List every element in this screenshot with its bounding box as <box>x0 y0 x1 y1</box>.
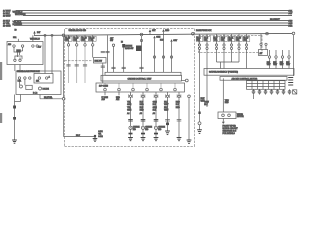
column F5 clutch switch <box>110 38 116 72</box>
svg-text:WHT/GRN: WHT/GRN <box>15 14 26 16</box>
svg-text:A12: A12 <box>116 98 119 101</box>
relay contact internals <box>14 47 23 59</box>
output column x130.5 <box>127 97 140 137</box>
svg-text:SW: SW <box>110 40 113 42</box>
node circle C2 <box>62 98 65 101</box>
fuse F12 <box>243 34 250 69</box>
wire right edge drop <box>293 35 295 76</box>
off-page arrow A1b <box>162 29 170 34</box>
bus wire 6 <box>3 24 293 28</box>
svg-text:DIODE: DIODE <box>43 89 50 91</box>
component box U3 <box>94 58 107 64</box>
bus wire 4 <box>3 20 293 23</box>
wire from J1 to C2 <box>39 95 41 99</box>
wire join y64.3 <box>217 61 240 63</box>
ground G402 <box>93 139 98 142</box>
node circle C5 <box>188 95 191 98</box>
svg-text:GAUGE ASSEMBLY (PRINTED): GAUGE ASSEMBLY (PRINTED) <box>209 70 238 73</box>
svg-text:A8: A8 <box>153 112 155 115</box>
wire column x154.5 <box>153 36 161 73</box>
fuse F11 <box>236 34 243 62</box>
svg-text:BLU/RED: BLU/RED <box>13 24 23 26</box>
connector pins bottom of J2 <box>130 92 132 95</box>
svg-text:14P CONN: 14P CONN <box>99 86 109 88</box>
wire column x163.5 <box>160 34 165 72</box>
fuse box outline <box>65 29 195 32</box>
connector row J5 pin 2 <box>258 89 261 94</box>
arrow A2 <box>222 119 224 124</box>
svg-text:RED: RED <box>176 107 181 109</box>
main feed wire <box>34 33 292 35</box>
ground G401 <box>128 138 133 141</box>
inline connector at corner <box>94 135 96 137</box>
node circle C7 <box>292 32 295 35</box>
svg-text:G402: G402 <box>98 136 102 138</box>
fuse F3 <box>81 35 88 83</box>
component box B <box>218 78 244 118</box>
node circle C6 <box>266 32 269 35</box>
page edge mark upper <box>0 62 2 80</box>
relay pin circles <box>13 45 15 47</box>
junction nodes on feed wire <box>44 34 46 36</box>
connector row J5 pin 3 <box>264 89 267 94</box>
node circle on ground leg <box>198 122 201 125</box>
svg-text:BLK/YEL: BLK/YEL <box>44 97 53 99</box>
J1 inner box <box>34 74 53 84</box>
bus wire 2 <box>3 11 293 15</box>
switch S1 dark element <box>136 46 142 52</box>
fuse F1 <box>65 35 72 83</box>
wire below J5 pin1 <box>253 95 255 99</box>
connector end square <box>293 90 297 94</box>
svg-text:12 WHT: 12 WHT <box>3 16 11 18</box>
svg-text:MOTOR: MOTOR <box>237 116 244 118</box>
relay K1 box <box>7 42 43 65</box>
bus wire 3 <box>3 14 292 18</box>
control unit U1 main box <box>101 75 182 81</box>
node circle C3 <box>140 33 143 36</box>
svg-text:GRN: GRN <box>127 109 132 111</box>
svg-text:MAIN SW: MAIN SW <box>125 47 134 50</box>
inline connector 1 <box>13 106 16 109</box>
J1 lower parts <box>19 85 22 88</box>
ground G403 <box>154 138 159 141</box>
fuse F6 <box>196 34 203 122</box>
J2 short stubs below <box>104 92 106 95</box>
page edge mark lower <box>0 113 2 123</box>
svg-text:BRK SW: BRK SW <box>95 60 103 62</box>
fuse F8 <box>213 34 220 62</box>
svg-text:CRUISE CONTROL UNIT: CRUISE CONTROL UNIT <box>128 78 153 80</box>
control unit U1 top strip <box>105 72 181 75</box>
wire bottom run <box>64 100 95 138</box>
fuse F4 <box>89 35 96 57</box>
wire column x171.5 <box>170 39 178 72</box>
connector row J5 pin 1 <box>252 89 255 94</box>
wire relay bottom stub right <box>19 65 21 72</box>
off-page arrow at feed start <box>33 31 35 34</box>
svg-text:AIR MIX CONTROL MOTOR: AIR MIX CONTROL MOTOR <box>232 77 258 80</box>
svg-text:A10: A10 <box>102 98 105 101</box>
svg-text:UNDER-DASH FUSE BOX: UNDER-DASH FUSE BOX <box>17 70 40 73</box>
wire relay stub right <box>32 35 34 41</box>
svg-text:WHT: WHT <box>286 64 290 66</box>
svg-text:GRN: GRN <box>127 104 132 106</box>
junction node x52 circle <box>51 34 53 36</box>
wire C1 drop <box>63 37 65 98</box>
svg-text:RED: RED <box>140 104 145 106</box>
svg-text:WHT: WHT <box>280 64 284 66</box>
ground G403 <box>187 140 192 143</box>
wire J1 ground stubs <box>14 95 16 102</box>
svg-text:FOR DETAILS: FOR DETAILS <box>223 132 236 135</box>
svg-text:WHT: WHT <box>267 64 271 66</box>
wire column x52 to J1 <box>51 36 53 73</box>
wire C3 drop <box>141 36 143 73</box>
wire relay bottom stub left <box>14 65 16 72</box>
terminal strip J4 <box>247 81 286 90</box>
svg-text:WHT/BLU: WHT/BLU <box>30 38 40 40</box>
inline connector 2 <box>13 117 16 120</box>
output column x178.5 <box>176 97 182 137</box>
svg-text:B 1 2: B 1 2 <box>33 93 37 95</box>
output column x165.5 <box>164 97 170 131</box>
connector strip J2 <box>96 83 185 92</box>
node circle C4 <box>182 80 186 82</box>
fuse F2 <box>73 35 80 83</box>
connector row J5 pin 7 <box>288 89 291 94</box>
svg-text:BLU/WHT: BLU/WHT <box>270 19 281 21</box>
node circle C1 <box>62 34 65 37</box>
ground G201 <box>12 140 17 143</box>
wire column x107.5 <box>101 35 110 72</box>
wire column x45 to J1 <box>44 36 46 73</box>
svg-text:UNDER-HOOD F/B: UNDER-HOOD F/B <box>69 30 87 32</box>
switch box U4 <box>259 50 268 56</box>
svg-text:GRN: GRN <box>156 36 161 38</box>
connector row J5 pin 4 <box>270 89 273 94</box>
pin circles above U5 <box>269 50 271 56</box>
ground G407 <box>165 131 170 135</box>
fuse F10 <box>228 34 235 62</box>
ground G402 <box>141 138 146 141</box>
connector box J1 <box>16 71 61 95</box>
output column x143 <box>140 97 153 137</box>
off-page arrow A1 <box>149 29 157 34</box>
bus wire 5 <box>3 21 293 25</box>
connector row J5 pin 5 <box>276 89 279 94</box>
J1 pin circles <box>18 77 20 79</box>
svg-text:WHT: WHT <box>273 64 277 66</box>
diode D1 column <box>121 42 126 73</box>
J2 pin circles <box>104 88 107 91</box>
right fuse box J3 <box>199 36 263 53</box>
svg-text:DASH FUSE BOX: DASH FUSE BOX <box>196 29 212 32</box>
U5 sub strip <box>220 77 287 81</box>
wire U3 out <box>102 63 104 83</box>
svg-text:A16: A16 <box>8 43 11 46</box>
ground G409 <box>197 130 202 134</box>
svg-text:BLK: BLK <box>76 135 81 137</box>
instrument unit U5 <box>204 69 294 76</box>
fuse F9 <box>221 34 228 69</box>
svg-text:16 GRN: 16 GRN <box>3 26 11 28</box>
svg-text:RED: RED <box>140 109 145 111</box>
dark connector stack right end <box>288 78 293 86</box>
output column x156 <box>153 97 166 137</box>
ground G408 <box>177 138 182 141</box>
wire relay stub left <box>17 39 19 42</box>
inline connector on ground leg <box>198 112 200 115</box>
svg-text:A6: A6 <box>140 112 142 115</box>
fuse F7 <box>204 34 211 107</box>
wire C5 ground drop <box>188 98 190 140</box>
bus wire 1 <box>3 10 293 13</box>
wire left ground drop <box>14 102 16 141</box>
connector row J5 pin 6 <box>282 89 285 94</box>
svg-text:A4: A4 <box>127 112 129 115</box>
